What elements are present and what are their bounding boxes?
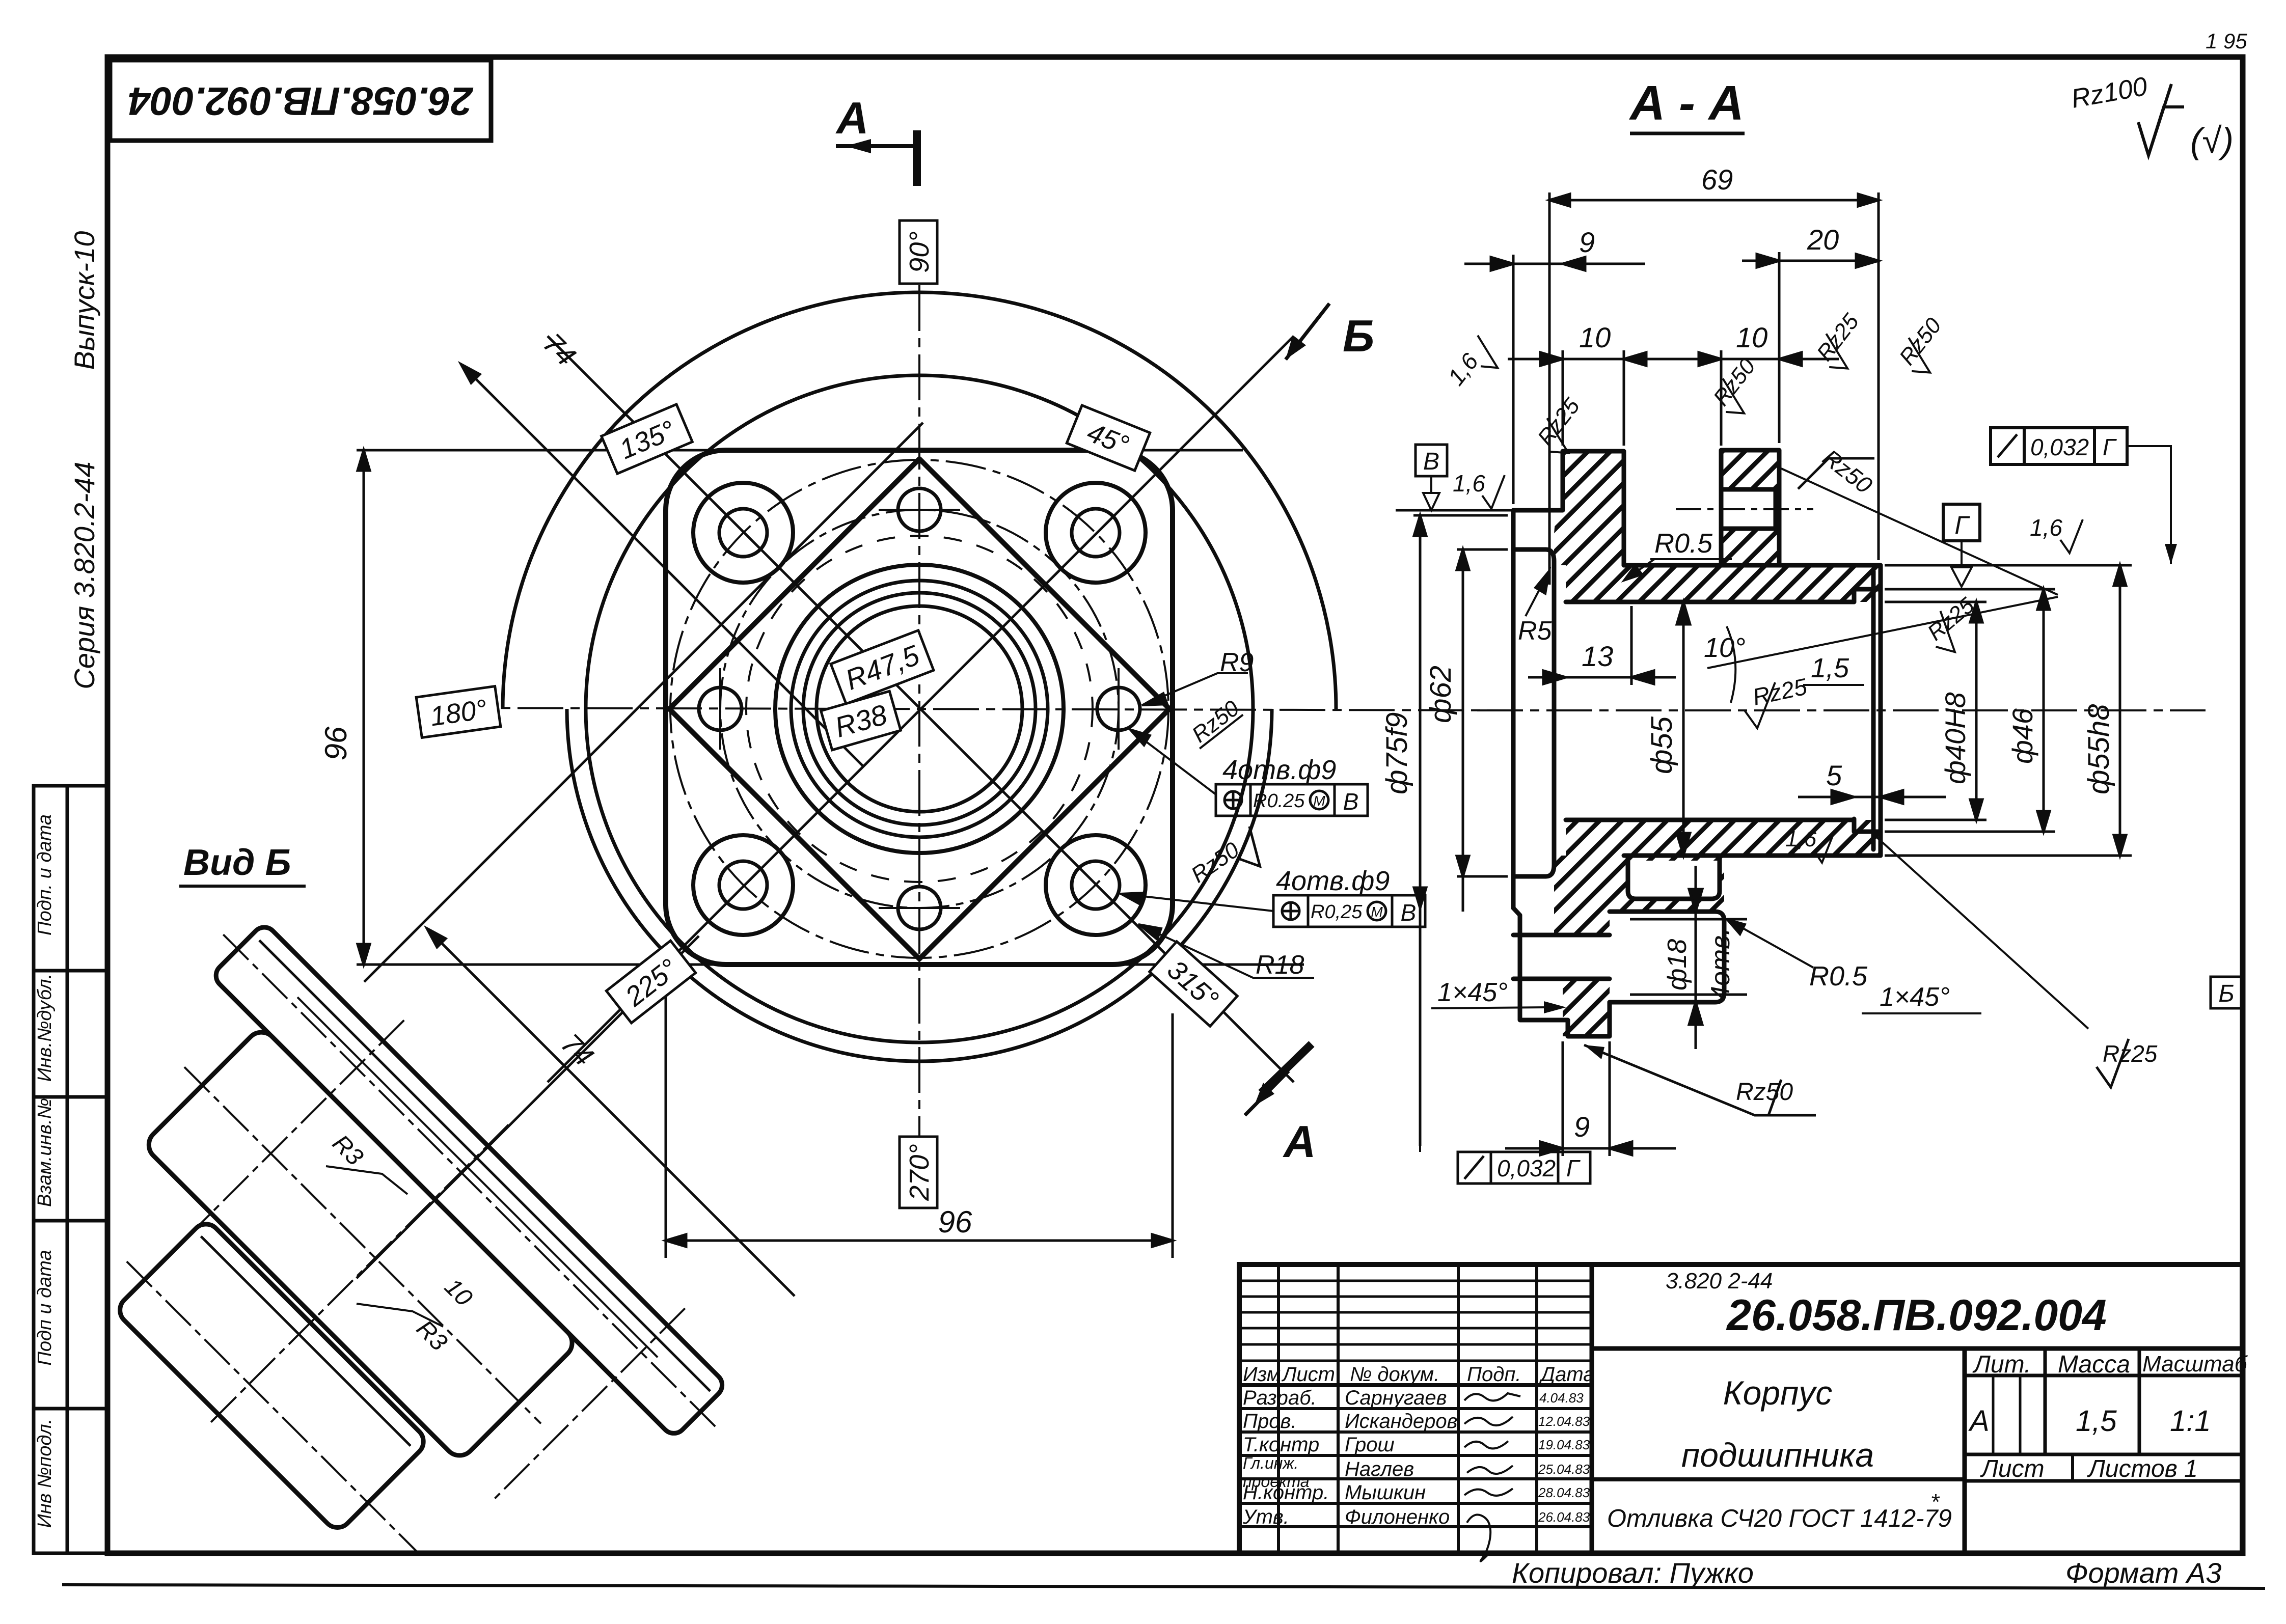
section title xyxy=(1629,76,1745,133)
bolt circle R47.5 dash-dot xyxy=(670,460,1168,958)
svg-text:1 95: 1 95 xyxy=(2206,29,2247,53)
svg-text:1,5: 1,5 xyxy=(1811,653,1849,683)
svg-text:Копировал: Пужко: Копировал: Пужко xyxy=(1512,1557,1754,1589)
title block texts xyxy=(1242,1269,2248,1589)
svg-text:Вид Б: Вид Б xyxy=(183,842,291,883)
svg-text:Б: Б xyxy=(1343,311,1374,361)
angle label 135 xyxy=(602,404,693,474)
name / material dividers xyxy=(1592,1477,1965,1481)
svg-text:Г: Г xyxy=(1954,511,1970,539)
svg-text:1,6: 1,6 xyxy=(2030,514,2062,541)
dimension 74 upper diagonal xyxy=(461,364,863,766)
recess walls xyxy=(1513,549,1554,876)
svg-text:Т.контр: Т.контр xyxy=(1243,1434,1319,1456)
axis centerlines across plates xyxy=(0,887,764,1624)
1.6 check near V xyxy=(1453,470,1505,509)
svg-text:Филоненко: Филоненко xyxy=(1345,1506,1450,1528)
boxed label R38 xyxy=(821,691,901,750)
svg-text:А: А xyxy=(1968,1405,1990,1438)
svg-text:R0.5: R0.5 xyxy=(1809,961,1868,992)
svg-text:1×45°: 1×45° xyxy=(1880,982,1950,1012)
small hole top xyxy=(898,488,941,531)
signature rows xyxy=(1242,1363,1595,1528)
svg-text:Листов 1: Листов 1 xyxy=(2087,1455,2198,1482)
svg-text:9: 9 xyxy=(1574,1111,1590,1143)
svg-text:0,032: 0,032 xyxy=(2030,434,2089,460)
svg-text:96: 96 xyxy=(319,726,353,760)
svg-text:R0,25: R0,25 xyxy=(1311,901,1363,923)
designation zone divider xyxy=(1592,1346,2242,1351)
svg-text:1:1: 1:1 xyxy=(2170,1405,2211,1438)
svg-text:28.04.83: 28.04.83 xyxy=(1538,1485,1590,1500)
svg-text:А - А: А - А xyxy=(1629,76,1744,130)
svg-text:В: В xyxy=(1401,899,1417,926)
svg-text:Лит.: Лит. xyxy=(1972,1351,2031,1378)
svg-text:ф75f9: ф75f9 xyxy=(1380,712,1413,794)
svg-text:4отв.ф9: 4отв.ф9 xyxy=(1222,755,1336,785)
right end faces xyxy=(1879,565,1883,856)
svg-text:R0.25: R0.25 xyxy=(1253,790,1305,812)
hatched boss bottom left xyxy=(1563,979,1610,1036)
svg-text:ф55h8: ф55h8 xyxy=(2082,704,2115,794)
section arrow A bottom xyxy=(1245,1044,1316,1167)
svg-text:ф46: ф46 xyxy=(2006,708,2038,764)
construction extension to Vid B xyxy=(357,936,699,1278)
svg-text:Взам.инв.№: Взам.инв.№ xyxy=(34,1098,56,1207)
section profile lines xyxy=(1513,450,1881,1036)
datum flag B right xyxy=(2211,977,2242,1008)
svg-text:№ докум.: № докум. xyxy=(1350,1363,1439,1386)
dimension 96 left xyxy=(358,450,370,965)
revision table columns xyxy=(1277,1264,1280,1553)
svg-text:13: 13 xyxy=(1582,640,1613,672)
dim 9 bottom xyxy=(1505,1041,1676,1156)
svg-text:90°: 90° xyxy=(904,231,935,273)
1.6 check right of G xyxy=(2030,514,2083,553)
leader to upper frame xyxy=(1130,729,1216,794)
dim 10 right xyxy=(1681,350,1839,446)
Rz100 general mark xyxy=(2069,72,2234,160)
svg-text:подшипника: подшипника xyxy=(1681,1436,1874,1474)
dim F75f9 xyxy=(1413,515,1508,1146)
dim 5 xyxy=(1798,790,1946,804)
Rz25 flag under G line xyxy=(1920,592,1989,659)
svg-text:26.058.ПВ.092.004: 26.058.ПВ.092.004 xyxy=(1726,1291,2107,1340)
svg-text:В: В xyxy=(1343,788,1359,815)
svg-text:Пров.: Пров. xyxy=(1243,1410,1296,1433)
small hole left xyxy=(699,687,742,730)
collar xyxy=(1721,450,1779,565)
1.6 checks small mid xyxy=(1785,827,1834,863)
svg-text:(√): (√) xyxy=(2190,121,2234,160)
svg-text:10°: 10° xyxy=(1704,632,1746,663)
svg-text:Изм: Изм xyxy=(1243,1363,1281,1386)
svg-text:Грош: Грош xyxy=(1345,1434,1395,1456)
svg-text:4отв.ф9: 4отв.ф9 xyxy=(1276,866,1390,896)
svg-text:Искандеров: Искандеров xyxy=(1345,1410,1457,1433)
svg-text:20: 20 xyxy=(1807,224,1839,256)
bore lines upper xyxy=(1624,563,1881,568)
hatched flange upper xyxy=(1554,451,1624,565)
dash-dot small groove line xyxy=(1676,508,1813,510)
svg-text:5: 5 xyxy=(1826,759,1842,791)
top-left step xyxy=(1513,451,1624,565)
angle label 225 xyxy=(606,941,695,1023)
tolerance frame 0.032 G bottom xyxy=(1458,1152,1590,1183)
svg-text:Подп.: Подп. xyxy=(1467,1363,1521,1386)
lower margin line xyxy=(62,1585,2265,1588)
svg-text:Масштаб: Масштаб xyxy=(2142,1352,2248,1377)
leader to lower frame xyxy=(1121,893,1273,911)
Rz25 bottom right flag xyxy=(2097,1039,2158,1087)
Rz50 big diagonal leader top xyxy=(1781,444,2058,595)
svg-text:А: А xyxy=(1283,1116,1316,1167)
svg-text:Гл.инж.: Гл.инж. xyxy=(1243,1454,1298,1472)
second circle xyxy=(586,375,1253,1042)
groove lower xyxy=(1628,856,1720,899)
svg-text:Дата: Дата xyxy=(1539,1363,1595,1386)
hatched tube wall upper xyxy=(1566,565,1881,602)
bottom flange edge extension line xyxy=(357,964,1304,966)
svg-text:Н.контр.: Н.контр. xyxy=(1243,1481,1329,1504)
diagonal centerline 45 xyxy=(548,336,1294,1082)
datum flag V top xyxy=(1396,445,1513,510)
horizontal centerline xyxy=(448,708,1523,710)
right side diameter dims xyxy=(1885,602,1986,820)
svg-text:М: М xyxy=(1313,793,1325,809)
R3 labels xyxy=(326,1166,443,1327)
dim 69 xyxy=(1549,192,1879,585)
svg-text:Сарнугаев: Сарнугаев xyxy=(1345,1387,1447,1409)
left margin series labels xyxy=(68,231,100,690)
svg-text:Подп и дата: Подп и дата xyxy=(34,1250,56,1365)
dimension 96 bottom xyxy=(666,968,1173,1258)
svg-text:4отв.: 4отв. xyxy=(1706,928,1735,1001)
dim F55 inside xyxy=(1677,602,1690,856)
leader R18 xyxy=(1138,924,1314,978)
bolt hole 135deg xyxy=(693,483,793,583)
svg-text:19.04.83: 19.04.83 xyxy=(1538,1437,1590,1452)
signatures squiggles xyxy=(1464,1393,1520,1561)
svg-text:Лист: Лист xyxy=(1281,1363,1335,1386)
bolt hole 225deg xyxy=(693,835,793,935)
angle label 180 xyxy=(416,686,501,738)
1x45 leader right mid xyxy=(1874,835,2088,1029)
svg-text:Б: Б xyxy=(2218,980,2234,1007)
bore lines lower xyxy=(1566,818,1854,822)
svg-text:10: 10 xyxy=(1579,321,1611,353)
svg-text:25.04.83: 25.04.83 xyxy=(1538,1462,1590,1477)
svg-text:9: 9 xyxy=(1579,226,1595,258)
svg-text:Масса: Масса xyxy=(2058,1351,2130,1378)
lit/massa/masshtab xyxy=(1965,1374,2242,1378)
svg-text:Инв.№дубл.: Инв.№дубл. xyxy=(34,974,56,1082)
flange rounded square xyxy=(666,450,1173,965)
svg-text:ф62: ф62 xyxy=(1424,666,1457,723)
svg-text:4.04.83: 4.04.83 xyxy=(1539,1390,1584,1406)
dim F18 4otv xyxy=(1630,866,1747,1049)
middle plate xyxy=(143,1026,579,1462)
svg-text:96: 96 xyxy=(938,1205,972,1239)
angle label 315 xyxy=(1150,942,1237,1027)
hatched wedge lower with groove xyxy=(1624,856,1724,912)
svg-text:Выпуск-10: Выпуск-10 xyxy=(68,231,100,370)
hidden recess circle dashed xyxy=(746,536,1093,882)
svg-text:Инв №подл.: Инв №подл. xyxy=(34,1419,56,1528)
Rz50 slanted mark lower xyxy=(1187,824,1272,901)
svg-text:69: 69 xyxy=(1701,163,1733,196)
svg-text:Разраб.: Разраб. xyxy=(1243,1387,1317,1409)
dim 10 left xyxy=(1508,350,1681,446)
boxed label R47.5 xyxy=(831,630,934,704)
dim 13 xyxy=(1528,606,1676,685)
top-left inverted stamp box xyxy=(110,60,491,141)
svg-text:Лист: Лист xyxy=(1980,1455,2045,1482)
Rz50 flag far right top xyxy=(1893,313,1957,381)
svg-text:Отливка СЧ20 ГОСТ 1412-79: Отливка СЧ20 ГОСТ 1412-79 xyxy=(1607,1505,1952,1532)
svg-text:12.04.83: 12.04.83 xyxy=(1538,1414,1590,1429)
Rz50 flag mid top xyxy=(1707,354,1772,422)
svg-text:26.04.83: 26.04.83 xyxy=(1538,1509,1590,1525)
svg-text:3.820 2-44: 3.820 2-44 xyxy=(1666,1269,1773,1293)
dim 9 top xyxy=(1464,255,1645,504)
svg-text:Серия 3.820.2-44: Серия 3.820.2-44 xyxy=(68,461,100,689)
diamond square xyxy=(669,459,1169,959)
small hole right xyxy=(1097,687,1140,730)
dim F62 xyxy=(1457,549,1508,912)
svg-text:*: * xyxy=(1930,1490,1940,1515)
svg-text:270°: 270° xyxy=(904,1144,935,1201)
central bore circles xyxy=(775,565,1064,853)
section arrow A top xyxy=(835,93,919,186)
datum flag G xyxy=(1943,504,1980,587)
svg-text:R18: R18 xyxy=(1256,950,1304,980)
tolerance frame 0.032 G top xyxy=(1991,428,2177,564)
svg-text:Подп. и дата: Подп. и дата xyxy=(34,814,56,935)
small hole bottom xyxy=(898,887,941,929)
svg-text:М: М xyxy=(1371,904,1383,920)
svg-text:26.058.ПВ.092.004: 26.058.ПВ.092.004 xyxy=(128,79,474,124)
diagonal centerline 135 xyxy=(548,336,1294,1082)
outer circle lower arc xyxy=(567,709,1272,1061)
Rz50 bottom flag xyxy=(1584,1045,1816,1115)
svg-text:Наглев: Наглев xyxy=(1345,1458,1414,1480)
svg-text:R0.5: R0.5 xyxy=(1654,528,1713,559)
top flange edge extension line xyxy=(357,449,1243,452)
svg-text:ф40Н8: ф40Н8 xyxy=(1939,692,1971,784)
svg-text:1,5: 1,5 xyxy=(2076,1405,2117,1438)
bottom plate xyxy=(114,1218,429,1533)
svg-text:R9: R9 xyxy=(1220,648,1254,677)
svg-text:ф55: ф55 xyxy=(1645,716,1678,774)
bolt circle R38 dash-dot xyxy=(720,510,1119,908)
hatched tube wall lower xyxy=(1566,820,1881,856)
1.6 flag top left xyxy=(1443,333,1506,398)
angle label 45 xyxy=(1067,405,1150,471)
svg-text:Rz50: Rz50 xyxy=(1736,1079,1793,1106)
svg-text:Утв.: Утв. xyxy=(1242,1506,1289,1528)
svg-text:Г: Г xyxy=(2103,434,2117,460)
svg-text:0,032: 0,032 xyxy=(1497,1155,1556,1181)
bolt hole channel xyxy=(1513,933,1610,938)
revision table left xyxy=(1590,1264,1594,1553)
svg-text:Rz25: Rz25 xyxy=(2103,1040,2158,1067)
svg-text:А: А xyxy=(835,93,869,143)
vertical centerline xyxy=(918,285,920,1140)
long plate xyxy=(211,922,727,1438)
svg-text:1,6: 1,6 xyxy=(1785,827,1817,851)
svg-text:R5: R5 xyxy=(1518,616,1553,646)
svg-text:Корпус: Корпус xyxy=(1723,1374,1833,1412)
svg-text:1,6: 1,6 xyxy=(1453,470,1485,497)
angle label 90 xyxy=(900,221,937,284)
view arrow B xyxy=(1286,304,1374,361)
svg-text:1×45°: 1×45° xyxy=(1437,978,1508,1007)
Rz25 flag left top xyxy=(1531,394,1596,461)
bolt hole 315deg xyxy=(1046,835,1146,935)
bolt hole 45deg xyxy=(1046,483,1146,583)
title block outline xyxy=(1239,1264,2242,1553)
Rz50 slanted mark upper xyxy=(1185,696,1244,750)
svg-text:10: 10 xyxy=(1736,321,1767,353)
svg-text:ф18: ф18 xyxy=(1663,939,1692,990)
angle label 270 xyxy=(900,1137,937,1208)
hatched flange lower xyxy=(1554,856,1624,935)
svg-text:В: В xyxy=(1423,448,1439,475)
hatched collar upper xyxy=(1721,450,1779,565)
Rz25 flag right top xyxy=(1810,309,1875,377)
dim 20 xyxy=(1742,252,1879,443)
svg-text:Мышкин: Мышкин xyxy=(1345,1481,1426,1504)
svg-text:Формат А3: Формат А3 xyxy=(2065,1557,2221,1589)
small hole cross ticks xyxy=(720,510,1119,908)
left margin vertical strip table xyxy=(34,786,107,1553)
dimension 74 lower diagonal xyxy=(427,928,795,1296)
svg-text:Г: Г xyxy=(1566,1155,1581,1181)
section centerline xyxy=(1477,709,2206,711)
outer circle arc top xyxy=(503,292,1336,709)
construction line perpendicular xyxy=(364,423,923,982)
leader R9 xyxy=(1142,673,1248,705)
left face xyxy=(1511,510,1516,908)
lower left step and boss xyxy=(1513,908,1610,1036)
